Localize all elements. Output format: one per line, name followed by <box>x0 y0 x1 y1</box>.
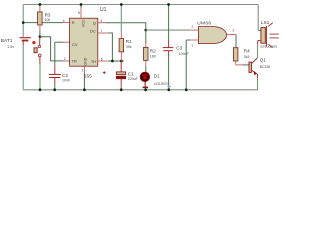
svg-text:DC: DC <box>90 29 96 34</box>
resistor R1 <box>119 5 132 62</box>
node junction R1 top on VCC rail <box>120 3 123 6</box>
capacitor C3 <box>163 5 189 90</box>
svg-text:C1: C1 <box>128 71 134 76</box>
svg-text:180: 180 <box>150 54 156 58</box>
loudspeaker LS1 <box>258 5 279 50</box>
svg-text:220uF: 220uF <box>128 77 138 81</box>
capacitor C2 <box>49 73 70 90</box>
node junction UM66 pin1 on GND rail <box>185 88 188 91</box>
wire GND pin 1 <box>83 66 85 73</box>
node junction D1 on GND rail <box>144 88 147 91</box>
svg-text:TR: TR <box>72 59 77 64</box>
node junction C3 on GND rail <box>167 88 170 91</box>
svg-text:Q: Q <box>93 20 96 25</box>
svg-text:UM66: UM66 <box>197 21 211 27</box>
svg-text:C2: C2 <box>62 73 68 78</box>
svg-text:10nF: 10nF <box>62 79 70 83</box>
resistor R2 <box>144 30 157 72</box>
svg-text:GND: GND <box>84 57 88 65</box>
svg-text:LED-RED: LED-RED <box>154 82 169 86</box>
svg-text:TH: TH <box>91 59 96 64</box>
wire discharge pin 7 net <box>98 32 109 34</box>
wire left battery column <box>22 5 24 38</box>
svg-text:SPEAKER: SPEAKER <box>260 45 277 49</box>
svg-text:R4: R4 <box>244 48 250 53</box>
svg-text:3: 3 <box>232 29 234 33</box>
wire threshold pin 6 net <box>98 60 109 62</box>
wire Q to UM66 pin 2 <box>146 29 191 31</box>
wire VCC pin 8 <box>80 5 82 9</box>
wire UM66 pin 3 output <box>227 34 236 36</box>
node junction C2 on GND rail <box>53 88 56 91</box>
svg-text:BAT1: BAT1 <box>1 38 13 44</box>
resistor R4 <box>233 48 250 65</box>
resistor R3 <box>38 5 51 37</box>
svg-text:U1: U1 <box>100 7 107 13</box>
melody IC UM66 <box>197 21 226 44</box>
svg-text:7: 7 <box>101 29 103 33</box>
node junction button bottom on GND rail <box>39 88 42 91</box>
wire battery to bottom rail <box>22 40 24 45</box>
svg-text:8: 8 <box>78 11 80 15</box>
pushbutton (trigger switch) <box>32 37 41 90</box>
wire control-voltage net CV to C2 <box>55 41 63 43</box>
svg-text:10k: 10k <box>45 18 51 22</box>
svg-text:R3: R3 <box>45 12 51 17</box>
node junction Q output to R2 / UM66 <box>144 29 147 32</box>
marker purple cross <box>167 85 171 89</box>
node junction R3 top on VCC rail <box>39 3 42 6</box>
node junction C1 on GND rail <box>120 88 123 91</box>
svg-text:1: 1 <box>191 44 193 48</box>
node junction R3 bottom / trigger <box>39 35 42 38</box>
wire bottom rail GND <box>23 89 258 91</box>
svg-text:1.5v: 1.5v <box>7 45 14 49</box>
svg-text:C3: C3 <box>176 45 182 50</box>
node junction battery/reset <box>22 21 25 24</box>
svg-text:39k: 39k <box>126 45 132 49</box>
svg-text:3k3: 3k3 <box>244 55 250 59</box>
svg-text:3: 3 <box>100 19 102 23</box>
svg-text:LS1: LS1 <box>261 20 270 26</box>
svg-text:100nF: 100nF <box>179 52 189 56</box>
svg-text:R2: R2 <box>150 48 156 53</box>
node junction DC/TH <box>111 60 114 63</box>
svg-text:VCC: VCC <box>82 19 86 27</box>
wire UM66 pin 1 to GND <box>190 39 198 41</box>
IC U1 555 timer <box>70 7 107 66</box>
wire Q output pin 3 net <box>98 22 106 24</box>
svg-text:Q1: Q1 <box>260 57 267 62</box>
capacitor C1 electrolytic <box>103 61 138 90</box>
wire trigger net to U1 TR pin <box>40 37 63 61</box>
battery BAT1 <box>1 38 31 49</box>
node junction C3 top on VCC rail <box>167 3 170 6</box>
svg-text:BC338: BC338 <box>260 65 270 69</box>
svg-text:2: 2 <box>191 25 193 29</box>
node junction R1/C1/TH <box>120 60 123 63</box>
svg-text:4: 4 <box>63 19 65 23</box>
LED D1 <box>140 72 168 90</box>
wire top rail VCC <box>23 4 258 6</box>
svg-text:2: 2 <box>64 57 66 61</box>
svg-text:CV: CV <box>72 42 78 47</box>
svg-text:R: R <box>72 20 75 25</box>
wire reset pin4 net (battery to U1 R pin) <box>23 22 63 24</box>
transistor Q1 <box>249 45 270 90</box>
svg-text:D1: D1 <box>154 73 160 78</box>
svg-text:R1: R1 <box>126 39 132 44</box>
svg-text:1: 1 <box>81 69 83 73</box>
svg-text:555: 555 <box>84 74 92 80</box>
